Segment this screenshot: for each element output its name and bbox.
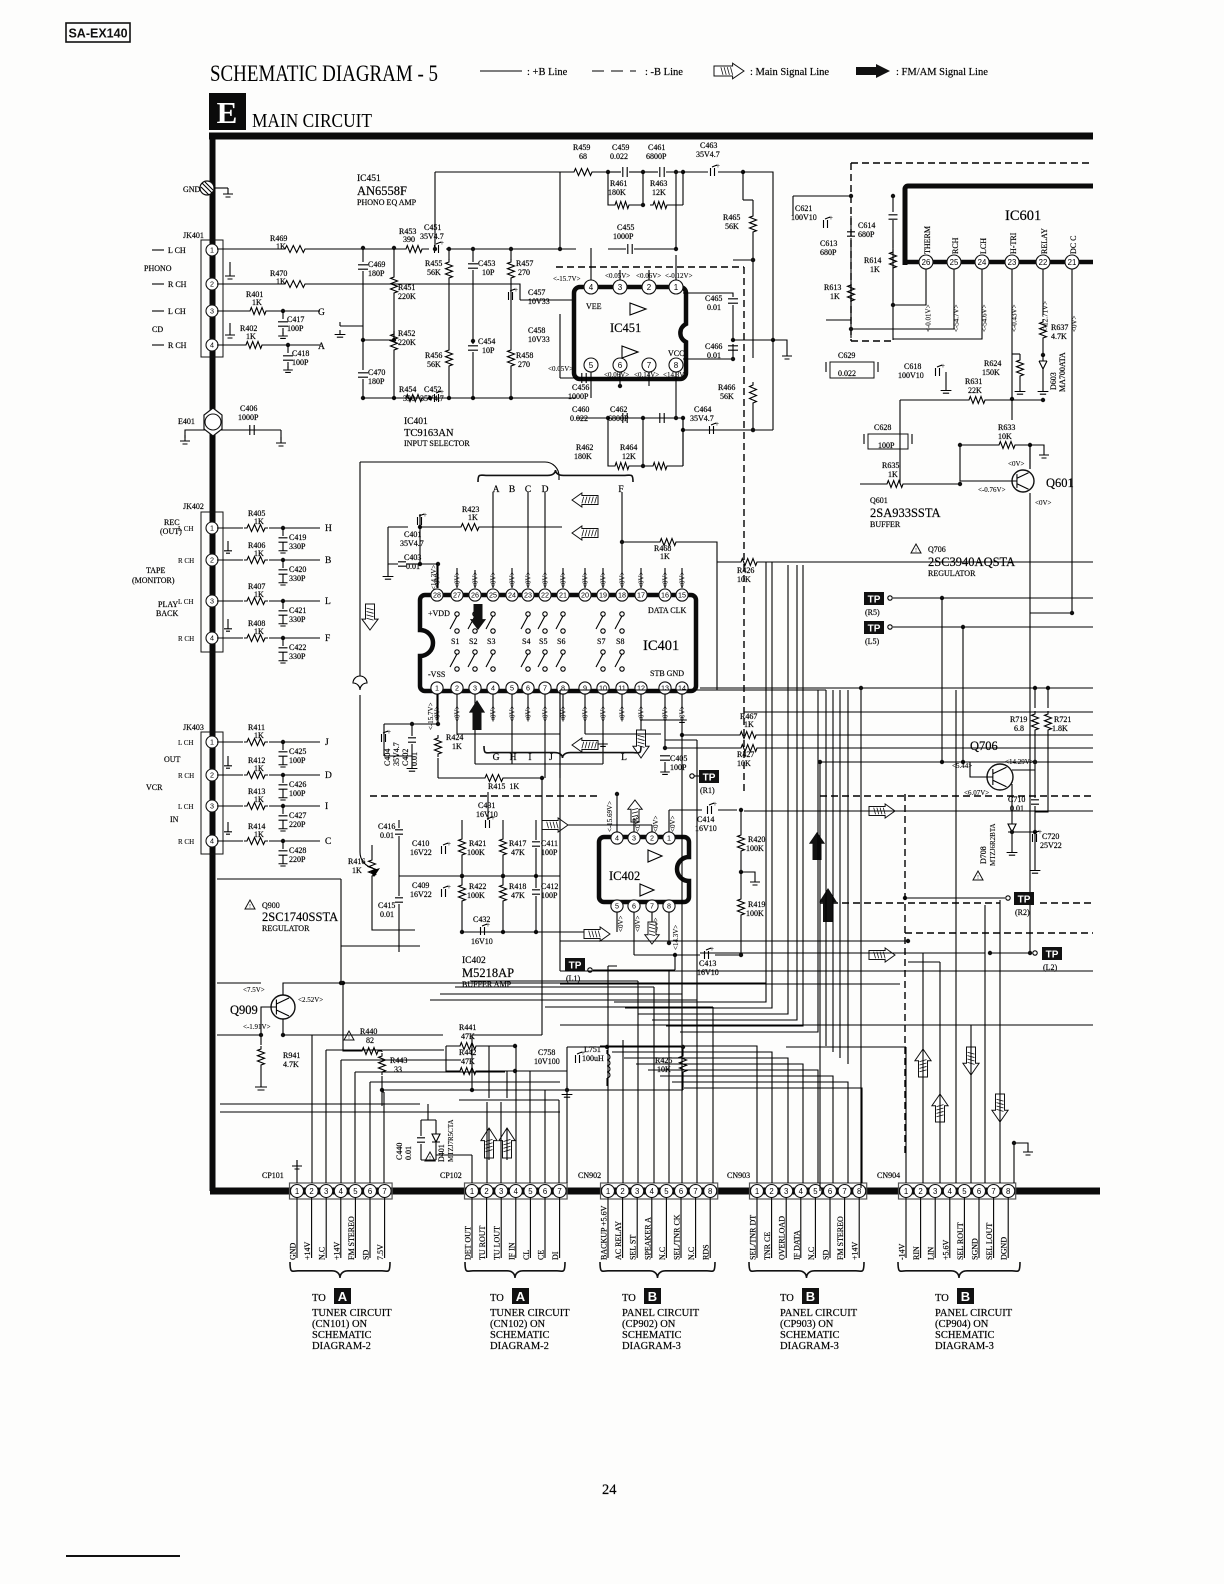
svg-text:C415: C415 (378, 901, 395, 910)
svg-text:220K: 220K (398, 292, 416, 301)
svg-text:7: 7 (991, 1187, 995, 1196)
svg-text:<0V>: <0V> (652, 815, 660, 832)
svg-text:S6: S6 (557, 637, 565, 646)
arrow up hatch q2 (499, 1128, 515, 1158)
svg-text:BACK: BACK (156, 609, 178, 618)
wire CP101 verticals (297, 1035, 384, 1183)
svg-text:10P: 10P (482, 346, 495, 355)
gnd jk402b (227, 619, 229, 624)
svg-text:35V4.7: 35V4.7 (690, 414, 714, 423)
svg-text:C405: C405 (670, 754, 687, 763)
svg-text:C466: C466 (705, 342, 722, 351)
JK401 pin 2 (206, 278, 218, 290)
svg-text:R466: R466 (718, 383, 735, 392)
IC601 pin 25 (947, 255, 961, 269)
IC401 pin 16 (659, 589, 671, 601)
svg-text:22K: 22K (968, 386, 982, 395)
svg-text:20: 20 (581, 591, 589, 600)
svg-text:B: B (509, 485, 515, 495)
svg-text:0.022: 0.022 (610, 152, 628, 161)
svg-text:1K: 1K (888, 470, 898, 479)
svg-text:12: 12 (637, 684, 645, 693)
svg-text:<0V>: <0V> (617, 915, 625, 932)
svg-text:: FM/AM Signal Line: : FM/AM Signal Line (896, 67, 988, 78)
svg-text:R420: R420 (748, 835, 765, 844)
svg-text:17: 17 (637, 591, 645, 600)
svg-text:TP: TP (569, 961, 582, 972)
testpoint TP L5 (864, 621, 884, 634)
svg-text:5: 5 (962, 1187, 967, 1196)
svg-text:(CP902) ON: (CP902) ON (622, 1319, 676, 1330)
IC402 body (599, 837, 689, 902)
svg-text:R637: R637 (1051, 323, 1068, 332)
svg-text:R417: R417 (509, 839, 526, 848)
svg-text:0.01: 0.01 (404, 1146, 413, 1160)
wire r631 left (899, 400, 901, 484)
svg-text:<14.29V>: <14.29V> (1005, 758, 1034, 766)
wire ic601 p26 (893, 269, 926, 305)
svg-text:68: 68 (579, 152, 587, 161)
JK403 pin 1 (206, 736, 218, 748)
svg-text:C469: C469 (368, 260, 385, 269)
svg-text:+: + (447, 840, 451, 848)
arrow main left 2 (572, 526, 598, 540)
gnd CP101 pin1 (292, 1160, 302, 1169)
svg-text:0.01: 0.01 (380, 831, 394, 840)
svg-text:330P: 330P (289, 615, 306, 624)
svg-text:1K: 1K (254, 517, 264, 526)
svg-text:SD: SD (362, 1250, 371, 1260)
svg-text:220P: 220P (289, 820, 306, 829)
IC601 pin 21 (1065, 255, 1079, 269)
svg-text:330P: 330P (289, 574, 306, 583)
svg-text:L: L (325, 597, 331, 607)
wire q706 base left (820, 761, 970, 763)
svg-text:S8: S8 (616, 637, 624, 646)
svg-text:R440: R440 (360, 1027, 377, 1036)
svg-text:6800P: 6800P (646, 152, 667, 161)
svg-text:PANEL CIRCUIT: PANEL CIRCUIT (780, 1308, 858, 1319)
gnd jk403b (227, 822, 229, 827)
svg-text:1K: 1K (468, 513, 478, 522)
svg-text:C410: C410 (412, 839, 429, 848)
svg-text:C428: C428 (289, 846, 306, 855)
IC401 pin 25 (487, 589, 499, 601)
gnd phono (229, 262, 231, 270)
op-amp tri ic402a (648, 850, 662, 862)
svg-text:6.8: 6.8 (1014, 724, 1024, 733)
svg-text:<-15.7V>: <-15.7V> (427, 702, 435, 730)
svg-text:(CN101) ON: (CN101) ON (312, 1319, 368, 1330)
IC402 pin 7 (646, 900, 658, 912)
wire 1047 rail (567, 1046, 683, 1048)
svg-text:RELAY: RELAY (1040, 228, 1049, 254)
svg-text:100P: 100P (670, 763, 687, 772)
wire eq mid (363, 339, 394, 341)
gnd c758 (566, 1086, 568, 1090)
svg-text:56K: 56K (427, 268, 441, 277)
svg-text:3: 3 (210, 307, 214, 316)
wire pin1 up (675, 172, 677, 249)
brace bottom (484, 746, 641, 758)
svg-text:JK401: JK401 (183, 231, 204, 240)
IC401 pin 15 (676, 589, 688, 601)
svg-text:Q909: Q909 (230, 1003, 258, 1017)
svg-text:+14V: +14V (303, 1241, 312, 1260)
wire phono R (217, 284, 520, 300)
IC401 pin 4 (487, 682, 499, 694)
svg-text:C418: C418 (292, 349, 309, 358)
svg-text:2: 2 (918, 1187, 922, 1196)
svg-text:C417: C417 (287, 315, 304, 324)
svg-text:C457: C457 (528, 288, 545, 297)
svg-text:R457: R457 (516, 259, 533, 268)
svg-text:MTZJ7R5CTA: MTZJ7R5CTA (447, 1119, 455, 1162)
svg-text:100K: 100K (746, 909, 764, 918)
svg-text:1: 1 (755, 1187, 759, 1196)
svg-text:C710: C710 (1008, 795, 1025, 804)
svg-text:3: 3 (210, 597, 214, 606)
svg-text:47K: 47K (461, 1057, 475, 1066)
arrow black up ic401 (469, 700, 485, 730)
svg-text:3: 3 (499, 1187, 503, 1196)
svg-text:3: 3 (618, 283, 623, 292)
svg-text:R721: R721 (1054, 715, 1071, 724)
svg-text:VCR: VCR (146, 783, 163, 792)
gnd jk403a (227, 756, 229, 761)
svg-text:M5218AP: M5218AP (462, 966, 514, 980)
svg-text:C456: C456 (572, 383, 589, 392)
svg-text:<7.5V>: <7.5V> (243, 986, 265, 994)
svg-text:1K: 1K (254, 731, 264, 740)
svg-text:CD: CD (152, 325, 163, 334)
svg-text:<-0.12V>: <-0.12V> (665, 272, 693, 280)
svg-text:R462: R462 (576, 443, 593, 452)
wire CN902 verticals (608, 720, 713, 1183)
warn R440 (344, 1031, 354, 1040)
svg-text:R421: R421 (469, 839, 486, 848)
svg-text:R CH: R CH (178, 635, 194, 643)
svg-text:12K: 12K (652, 188, 666, 197)
svg-text:220K: 220K (398, 338, 416, 347)
svg-text:C458: C458 (528, 326, 545, 335)
svg-text:IN: IN (170, 815, 179, 824)
svg-text:G: G (493, 753, 500, 763)
svg-text:26: 26 (922, 258, 931, 267)
svg-text:8: 8 (561, 684, 565, 693)
svg-text:C421: C421 (289, 606, 306, 615)
svg-text:<-15.69V>: <-15.69V> (606, 801, 614, 832)
legend main signal line (714, 63, 744, 79)
svg-text:CP101: CP101 (262, 1171, 284, 1180)
svg-text:INPUT SELECTOR: INPUT SELECTOR (404, 439, 470, 448)
svg-text:C461: C461 (648, 143, 665, 152)
IC601 pin 26 (919, 255, 933, 269)
svg-text:<-15.7V>: <-15.7V> (553, 275, 581, 283)
svg-text:100P: 100P (541, 891, 558, 900)
IC401 switches lower (455, 650, 459, 654)
svg-text:LIN: LIN (927, 1246, 936, 1260)
svg-text:4.7K: 4.7K (1051, 332, 1067, 341)
svg-text:23: 23 (1008, 258, 1017, 267)
svg-text:35V4.7: 35V4.7 (696, 150, 720, 159)
svg-text:R631: R631 (965, 377, 982, 386)
svg-text:10P: 10P (482, 268, 495, 277)
svg-text:5: 5 (813, 1187, 818, 1196)
svg-text:2: 2 (620, 1187, 624, 1196)
svg-text:C720: C720 (1042, 832, 1059, 841)
arrow right hatch r1 (869, 804, 895, 818)
wire CN904 jogs (786, 900, 1000, 1047)
svg-text:D401: D401 (437, 1144, 446, 1162)
svg-text:<0V>: <0V> (1008, 460, 1025, 468)
gnd jk402a (227, 541, 229, 546)
svg-text:+14V: +14V (851, 1241, 860, 1260)
JK402 pin 3 (206, 595, 218, 607)
svg-text:6: 6 (632, 902, 636, 911)
svg-text:C401: C401 (404, 530, 421, 539)
svg-text:3: 3 (784, 1187, 788, 1196)
svg-text:56K: 56K (427, 360, 441, 369)
svg-text:I: I (325, 802, 328, 812)
svg-text:6: 6 (618, 361, 623, 370)
svg-text:TP: TP (1046, 950, 1059, 961)
svg-text:2: 2 (309, 1187, 313, 1196)
svg-text:1K: 1K (246, 332, 256, 341)
svg-text:4: 4 (210, 837, 214, 846)
IC401 pin 26 (469, 589, 481, 601)
svg-text:(L1): (L1) (566, 974, 581, 983)
svg-text:I: I (528, 753, 531, 763)
dashed -B line mid (370, 795, 1093, 797)
IC601 pin 24 (975, 255, 989, 269)
testpoint TP R2 (1014, 892, 1034, 905)
wire left long verticals (542, 690, 567, 1183)
svg-text:5: 5 (528, 1187, 533, 1196)
svg-text:C454: C454 (478, 337, 495, 346)
wire CN903 staircase (600, 1046, 862, 1183)
svg-text:270: 270 (518, 268, 530, 277)
svg-text:CN903: CN903 (727, 1171, 750, 1180)
IC401 pin 17 (635, 589, 647, 601)
arrow hollow down left (362, 604, 378, 630)
svg-text:7: 7 (842, 1187, 846, 1196)
svg-text:C431: C431 (478, 801, 495, 810)
svg-text:10: 10 (599, 684, 607, 693)
svg-text:1K: 1K (254, 590, 264, 599)
svg-text:330P: 330P (289, 652, 306, 661)
svg-text:+: + (486, 921, 490, 929)
svg-text:MTZJ6R2BTA: MTZJ6R2BTA (989, 823, 997, 866)
svg-text:47K: 47K (461, 1032, 475, 1041)
svg-text:GND: GND (289, 1242, 298, 1260)
svg-text:+5.6V: +5.6V (941, 1239, 950, 1260)
wire ic401 right link (716, 562, 718, 690)
IC451 pin 4 (584, 280, 598, 294)
IC402 pin 2 (646, 832, 658, 844)
svg-text:Q601: Q601 (1046, 476, 1074, 490)
svg-text:SGND: SGND (971, 1238, 980, 1260)
svg-text:26: 26 (471, 591, 479, 600)
svg-text:24: 24 (978, 258, 987, 267)
wire+resistor R405 row (217, 527, 320, 529)
svg-text:AC RELAY: AC RELAY (614, 1221, 623, 1260)
svg-text:R CH: R CH (178, 772, 194, 780)
svg-text:4.7K: 4.7K (283, 1060, 299, 1069)
svg-text:SEL LOUT: SEL LOUT (985, 1223, 994, 1260)
warn Q900 (245, 900, 255, 909)
JK403 pin 4 (206, 835, 218, 847)
IC401 pin 12 (635, 682, 647, 694)
svg-text:23: 23 (524, 591, 532, 600)
wire bus TP R5 L5 right (1092, 605, 1094, 607)
svg-text:C463: C463 (700, 141, 717, 150)
svg-text:DC C: DC C (1069, 236, 1078, 254)
IC401 pin 7 (539, 682, 551, 694)
svg-text:4: 4 (589, 283, 594, 292)
arrow up hatch mid (628, 800, 642, 822)
svg-text:8: 8 (667, 902, 671, 911)
IC401 pin 6 (522, 682, 534, 694)
svg-text:16V10: 16V10 (471, 937, 493, 946)
svg-text:35V4.7: 35V4.7 (392, 742, 401, 766)
svg-text:24: 24 (508, 591, 516, 600)
IC601 pin 22 (1036, 255, 1050, 269)
svg-text:R427: R427 (737, 750, 754, 759)
svg-text:1K: 1K (830, 292, 840, 301)
JK402 pin 2 (206, 554, 218, 566)
svg-text:SCHEMATIC: SCHEMATIC (312, 1330, 372, 1341)
svg-text:56K: 56K (725, 222, 739, 231)
svg-text:150K: 150K (982, 368, 1000, 377)
svg-text:J: J (549, 753, 553, 763)
wires IC401 bottom pins (437, 694, 682, 764)
svg-text:C409: C409 (412, 881, 429, 890)
svg-text:C453: C453 (478, 259, 495, 268)
svg-text:R415 1K: R415 1K (488, 782, 519, 791)
svg-text:C440: C440 (395, 1143, 404, 1160)
wire+resistor R407 row (217, 600, 320, 602)
svg-text:TO: TO (312, 1293, 326, 1304)
wire pin2 line (520, 299, 576, 301)
wire r467 link (860, 734, 862, 736)
IC401 pin 1 (431, 682, 443, 694)
svg-text:MA700ATA: MA700ATA (1058, 352, 1067, 392)
wire eq out (682, 418, 684, 466)
IC401 pin 10 (597, 682, 609, 694)
svg-text:<5.44>: <5.44> (952, 762, 972, 770)
svg-text:<0.14V>: <0.14V> (634, 371, 659, 379)
svg-text:47K: 47K (511, 848, 525, 857)
svg-text:IF IN: IF IN (507, 1242, 516, 1260)
svg-text:C406: C406 (240, 404, 257, 413)
IC402 pin 6 (628, 900, 640, 912)
svg-text:DIAGRAM-3: DIAGRAM-3 (935, 1341, 994, 1352)
svg-text:0.01: 0.01 (406, 562, 420, 571)
svg-text:4: 4 (210, 634, 214, 643)
svg-text:0.01: 0.01 (410, 752, 419, 766)
wire q909 supply (217, 1034, 261, 1036)
svg-text:R418: R418 (509, 882, 526, 891)
JK402 pin 1 (206, 522, 218, 534)
wire phono L (217, 248, 576, 250)
svg-text:9: 9 (583, 684, 587, 693)
IC451 pin 3 (613, 280, 627, 294)
svg-text:1K: 1K (254, 764, 264, 773)
svg-text:C470: C470 (368, 368, 385, 377)
svg-text:2SC1740SSTA: 2SC1740SSTA (262, 910, 338, 924)
svg-text:R419: R419 (748, 900, 765, 909)
svg-text:!: ! (429, 1156, 431, 1162)
arrow down hatch r5 (963, 1047, 979, 1075)
IC401 pin 24 (506, 589, 518, 601)
svg-text:(L5): (L5) (865, 637, 880, 646)
svg-text:R458: R458 (516, 351, 533, 360)
svg-text:C758: C758 (538, 1048, 555, 1057)
svg-text:: +B Line: : +B Line (527, 67, 568, 78)
transistor Q601 (1012, 470, 1034, 492)
svg-text:E: E (217, 95, 238, 130)
svg-text:1K: 1K (276, 242, 286, 251)
wire pin8 down (675, 386, 677, 418)
svg-text:82: 82 (366, 1036, 374, 1045)
wire 690 rail (560, 689, 826, 691)
wire+resistor R408 row (217, 637, 320, 639)
svg-text:+: + (716, 162, 720, 170)
wire low ladder rail (576, 417, 683, 419)
wire vdd up (437, 564, 439, 588)
arrow main left 3 (572, 738, 598, 752)
svg-text:25: 25 (489, 591, 497, 600)
svg-text:1000P: 1000P (613, 232, 634, 241)
svg-text:N.C: N.C (687, 1247, 696, 1260)
svg-text:DI: DI (551, 1251, 560, 1260)
legend -B line (592, 70, 636, 72)
IC451 pin 1 (669, 280, 683, 294)
svg-text:<14.3V>: <14.3V> (672, 925, 680, 950)
svg-text:TO: TO (780, 1293, 794, 1304)
svg-text:1: 1 (210, 524, 214, 533)
svg-text:16V10: 16V10 (697, 968, 719, 977)
svg-text:+: + (829, 214, 833, 222)
svg-text:: -B Line: : -B Line (645, 67, 683, 78)
JK401 pin 3 (206, 305, 218, 317)
svg-text:TO: TO (935, 1293, 949, 1304)
JK401 pin 4 (206, 339, 218, 351)
svg-text:100P: 100P (287, 324, 304, 333)
IC451 pin 6 (613, 358, 627, 372)
wire mid rail 932 (462, 931, 600, 933)
brace top (478, 470, 633, 482)
svg-text:<0V>: <0V> (669, 815, 677, 832)
svg-text:N.C: N.C (658, 1247, 667, 1260)
svg-text:2: 2 (769, 1187, 773, 1196)
svg-text:0.01: 0.01 (1010, 804, 1024, 813)
svg-text:8: 8 (857, 1187, 861, 1196)
svg-text:(R5): (R5) (865, 608, 880, 617)
svg-text:C455: C455 (617, 223, 634, 232)
svg-text:4: 4 (615, 834, 619, 843)
svg-text:DIAGRAM-2: DIAGRAM-2 (490, 1341, 549, 1352)
wire r465 top (742, 172, 744, 200)
svg-text:+: + (1038, 828, 1042, 836)
svg-text:IC601: IC601 (1005, 208, 1041, 224)
svg-text:7: 7 (557, 1187, 561, 1196)
svg-text:1: 1 (606, 1187, 610, 1196)
svg-text:4: 4 (799, 1187, 804, 1196)
svg-text:L751: L751 (584, 1045, 601, 1054)
warn q706 (911, 544, 921, 553)
